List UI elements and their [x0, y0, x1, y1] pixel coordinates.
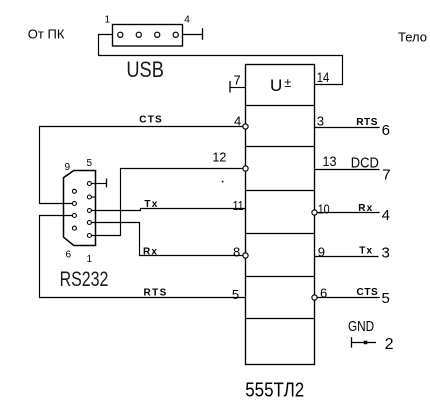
svg-text:Тело: Тело: [398, 30, 427, 45]
pin 7 terminal bar: [229, 81, 231, 93]
wire pin 12 from RS232 pin 1: [91, 169, 243, 236]
svg-text:555ТЛ2: 555ТЛ2: [245, 379, 304, 401]
inversion bubble pin 10: [312, 210, 317, 215]
svg-text:GND: GND: [348, 318, 374, 335]
inversion bubble pin 12: [243, 166, 248, 171]
svg-text:6: 6: [320, 285, 327, 300]
wire RS232 pin 5 stub: [91, 183, 106, 185]
inversion bubble pin 4: [243, 124, 248, 129]
wire CTS from RS232 to pin 4: [40, 127, 243, 204]
svg-text:Tx: Tx: [144, 199, 158, 210]
terminal bar RS232 pin 5: [106, 179, 108, 188]
wire RTS from RS232 to pin 5: [40, 216, 246, 298]
wire pin 3 RTS out: [315, 127, 380, 129]
RS232 pin 3 contact: [87, 209, 91, 213]
USB pin contact 2: [136, 32, 141, 37]
ground node dot: [364, 341, 368, 345]
wire RS232 pin 4 stub: [91, 196, 95, 198]
svg-text:5: 5: [87, 158, 93, 169]
terminal bar right of USB: [202, 28, 204, 40]
RS232 connector X2 body: [64, 171, 96, 246]
svg-text:CTS: CTS: [139, 115, 163, 126]
inversion bubble pin 8: [243, 253, 248, 258]
svg-text:Rx: Rx: [143, 246, 158, 257]
U1 divider 1: [246, 105, 315, 107]
wire pin 13 DCD out: [315, 169, 380, 171]
op-amp U1 body 555ТЛ2: [246, 65, 315, 365]
RS232 pin 2 contact: [87, 221, 91, 225]
svg-text:3: 3: [317, 114, 324, 129]
svg-text:8: 8: [233, 244, 240, 259]
U1 divider 6: [246, 318, 315, 320]
svg-text:1: 1: [87, 254, 93, 265]
svg-text:13: 13: [323, 153, 337, 169]
svg-text:4: 4: [234, 113, 241, 128]
svg-text:5: 5: [232, 287, 239, 302]
svg-text:USB: USB: [126, 57, 163, 82]
U1 divider 4: [246, 233, 315, 235]
RS232 pin 8 contact: [72, 202, 76, 206]
wire USB right stub: [183, 34, 203, 36]
svg-text:RTS: RTS: [356, 117, 378, 128]
wire Rx from RS232 pin 2 to pin 8: [91, 223, 243, 256]
RS232 pin 6 contact: [72, 226, 76, 230]
svg-text:9: 9: [65, 162, 71, 173]
RS232 pin 1 contact: [87, 234, 91, 238]
wire pin 10 Rx out: [317, 212, 379, 214]
svg-text:4: 4: [382, 207, 390, 224]
U1 divider 3: [246, 190, 315, 192]
RS232 pin 7 contact: [72, 214, 76, 218]
svg-text:11: 11: [233, 198, 244, 213]
svg-text:U: U: [270, 76, 282, 95]
svg-text:6: 6: [66, 250, 72, 261]
svg-text:1: 1: [105, 15, 111, 26]
RS232 pin 5 contact: [87, 182, 91, 186]
svg-text:DCD: DCD: [351, 156, 379, 172]
svg-text:12: 12: [212, 150, 226, 165]
USB connector X1 body: [113, 25, 183, 47]
svg-text:5: 5: [382, 290, 390, 307]
svg-text:±: ±: [284, 76, 291, 90]
inversion bubble pin 6: [312, 295, 317, 300]
wire USB to pin 14 of U1: [99, 35, 343, 85]
wire Tx from RS232 pin 3 to pin 11: [91, 209, 245, 211]
wire ground stub: [352, 342, 377, 344]
svg-text:Rx: Rx: [358, 203, 373, 214]
wire pin 6 CTS out: [317, 297, 380, 299]
svg-text:3: 3: [382, 245, 390, 262]
svg-text:От ПК: От ПК: [28, 27, 65, 42]
wire pin 9 Tx out: [315, 256, 379, 258]
RS232 pin 9 contact: [72, 189, 76, 193]
RS232 pin 4 contact: [87, 195, 91, 199]
USB pin contact 1: [118, 32, 123, 37]
svg-text:9: 9: [318, 244, 325, 259]
svg-text:RS232: RS232: [60, 268, 109, 291]
U1 divider 2: [246, 146, 315, 148]
svg-text:RTS: RTS: [144, 288, 168, 299]
svg-text:7: 7: [382, 167, 390, 184]
svg-text:2: 2: [385, 336, 394, 353]
USB pin contact 3: [155, 32, 160, 37]
ground terminal bar: [351, 337, 353, 347]
svg-text:14: 14: [317, 70, 330, 85]
svg-text:6: 6: [382, 122, 390, 139]
stray dot node: [222, 181, 224, 183]
svg-text:7: 7: [234, 73, 241, 88]
wire pin 7: [230, 87, 246, 89]
svg-text:10: 10: [318, 202, 330, 217]
U1 divider 5: [246, 276, 315, 278]
USB pin contact 4: [173, 32, 178, 37]
svg-text:Tx: Tx: [359, 246, 373, 257]
svg-text:4: 4: [184, 15, 190, 26]
svg-text:CTS: CTS: [357, 287, 379, 298]
